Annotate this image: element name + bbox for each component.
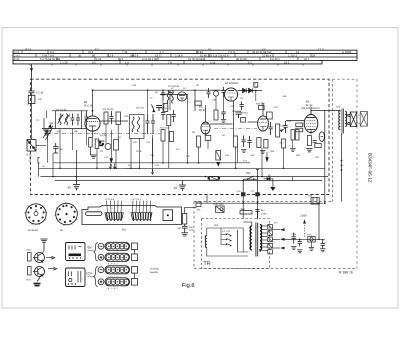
row 2 cells [106, 255, 129, 260]
svg-text:B 01: B 01 [27, 154, 33, 157]
B1 top lead [92, 90, 94, 116]
T1 collector [38, 253, 43, 256]
socket 2 key dot [65, 213, 67, 215]
wire harness line 3 [13, 56, 357, 58]
svg-text:220V: 220V [301, 214, 308, 218]
B5 left drop [292, 140, 294, 148]
svg-text:1 1 29: 1 1 29 [60, 61, 68, 64]
battery row 3 minus circle [98, 267, 104, 273]
220V arrowhead [303, 220, 306, 224]
svg-text:S20: S20 [336, 106, 341, 109]
below-can cap 2 [248, 136, 252, 148]
tube B4b envelope [258, 116, 269, 131]
B4b top lead [262, 103, 264, 116]
B4a grid [227, 92, 236, 94]
svg-text:8 4: 8 4 [95, 48, 99, 51]
B4b grid [259, 122, 267, 124]
rail down arrow b [113, 164, 115, 169]
R14 cross stroke [216, 151, 221, 161]
antenna down-lead wire [31, 64, 33, 91]
dial slot window [86, 212, 103, 216]
row 2 connector block [132, 254, 138, 261]
row 2 plus sign [100, 256, 103, 259]
capacitor C6 in box [76, 114, 80, 126]
svg-text:6V: 6V [88, 246, 93, 250]
mains wire horizontal [243, 178, 257, 180]
B3 heater drop [198, 147, 200, 163]
row 4 plus sign [100, 280, 103, 283]
mains transformer secondary stack [260, 225, 262, 252]
svg-text:B1 B3 B4: B1 B3 B4 [28, 229, 39, 232]
trimmer capacitor C3 arrows [43, 118, 53, 141]
trimmer lower wire [47, 141, 49, 163]
svg-text:− 4 7 − 3 1: − 4 7 − 3 1 [106, 263, 118, 266]
B5 cathode cap [313, 141, 317, 143]
osc padder cap [146, 114, 150, 134]
battery row 1 minus circle [98, 243, 104, 249]
svg-text:12V: 12V [86, 272, 93, 276]
svg-text:3841 9: 3841 9 [130, 55, 139, 58]
row 4 connector block [132, 279, 138, 286]
svg-text:7 4 11: 7 4 11 [228, 51, 236, 54]
B4b ground [260, 151, 266, 154]
mixer grid resistor R4 [104, 112, 108, 124]
surge resistor R66 [240, 211, 252, 214]
coil box drop a [59, 129, 61, 169]
B5 anode [307, 117, 316, 119]
svg-text:4 8 48 1: 4 8 48 1 [270, 58, 280, 61]
B3 right drop 2 [223, 97, 225, 112]
volume pot coupling cap [269, 122, 273, 135]
mains entry box [216, 206, 225, 212]
wire under osc box [125, 167, 140, 169]
battery row 4 holder [105, 278, 130, 286]
B5 grid 1 [306, 126, 316, 128]
T1 collector lead up [43, 251, 45, 254]
SK6 circle contact [69, 278, 72, 281]
wire harness top line [13, 49, 357, 51]
svg-text:kwartlle: kwartlle [150, 271, 159, 274]
string mass 1 hatch [107, 213, 122, 219]
wire R2 to ground [89, 147, 91, 155]
antenna lead arrowhead [30, 68, 33, 72]
output transformer core bar 2 [343, 109, 345, 134]
wire antenna to input connector [31, 93, 33, 140]
B5 cathode [307, 130, 315, 135]
osc coil winding a [132, 117, 134, 133]
svg-text:+ − + − + − +: + − + − + − + [106, 275, 119, 278]
rectifier terminal cell 3 [268, 237, 273, 242]
svg-text:R7 1k: R7 1k [136, 150, 143, 153]
ratio coil squiggle a [167, 91, 169, 104]
screen feed resistor R12 [195, 101, 201, 105]
ground 49 [179, 181, 186, 191]
B3 right resistor [214, 110, 218, 120]
lamp drop wire [311, 242, 313, 248]
B5 top lead [310, 107, 312, 115]
rectifier terminal cell 2 [268, 231, 273, 236]
output transformer core bar 1 [341, 109, 343, 134]
svg-text:EL 84: EL 84 [306, 104, 313, 107]
svg-text:4 18: 4 18 [210, 61, 216, 64]
selector feed wires [221, 228, 248, 252]
B4b anode [260, 118, 266, 120]
drop wire mixer [105, 124, 107, 144]
transistor T1 envelope [35, 253, 45, 263]
heater rail [55, 180, 322, 182]
IF grid cluster cap b [172, 110, 176, 122]
detector node drop [255, 91, 257, 102]
wire harness line 4 [13, 59, 357, 61]
svg-text:TR: TR [204, 261, 211, 267]
string mass 2 [131, 213, 152, 220]
secondary to speaker wire a [347, 114, 349, 115]
B3 grid dashes [202, 126, 209, 128]
feedback box RC [315, 144, 321, 148]
svg-text:C103: C103 [261, 212, 267, 215]
transformer core line 2 [257, 223, 259, 257]
coupling cap node wire [162, 100, 164, 112]
pilot lamp ground b [297, 250, 303, 253]
B1 coupling wire to oscillator [100, 120, 128, 122]
wire top of FM stage [52, 110, 88, 112]
row 4 cells [106, 279, 129, 284]
battery row 1 holder [105, 242, 130, 250]
B3 top lead [205, 105, 207, 122]
svg-text:ECC 85: ECC 85 [84, 105, 93, 108]
selector taps left [221, 235, 227, 245]
voltage selector contact 1 [227, 234, 232, 237]
external loudspeaker 2 [360, 112, 367, 127]
svg-text:S5 C31: S5 C31 [136, 107, 145, 110]
rail dot e [283, 168, 285, 170]
legend left bias boxes [28, 253, 32, 262]
osc box drop wire [139, 138, 141, 168]
svg-text:49: 49 [174, 186, 178, 190]
tuning arrow into osc box [152, 105, 155, 112]
interference filter on boundary [311, 198, 319, 205]
selector tap dots [226, 234, 227, 235]
drop wire from can [235, 147, 237, 168]
front-end micro labels [36, 98, 160, 167]
ratio coil squiggle b [172, 91, 174, 104]
screen resistor R3 [95, 139, 99, 149]
svg-text:44 7: 44 7 [304, 58, 310, 61]
coil S1 winding a [59, 114, 61, 126]
tube B5 EL84 envelope [304, 115, 318, 133]
svg-text:7%: 7% [240, 97, 243, 100]
below-can cap 1 [242, 136, 246, 148]
brace 12V [94, 267, 98, 287]
B5 cathode resistor [307, 136, 311, 146]
T1 base bar [37, 254, 39, 261]
socket 1 key [34, 212, 38, 216]
row 1 cell dots [108, 246, 127, 247]
secondary tap 1 [262, 225, 268, 227]
detent cluster dot [47, 130, 49, 132]
rail dot g [76, 176, 78, 178]
secondary to speaker wire b [347, 123, 349, 126]
T2 emitter with arrow [38, 273, 43, 276]
svg-text:C101 R64: C101 R64 [213, 203, 224, 206]
drive drum square [163, 210, 173, 221]
svg-text:7 8: 7 8 [168, 61, 172, 64]
B3 screen ground [221, 120, 226, 123]
secondary cap drop [169, 99, 171, 110]
6V tilde [88, 250, 94, 251]
can stage ground [241, 150, 247, 153]
secondary tap 4 [262, 236, 268, 238]
svg-text:12 8 6 5 4: 12 8 6 5 4 [105, 198, 115, 201]
B3 left resistor R13 [197, 136, 201, 147]
pulley dots 1 [107, 220, 122, 221]
socket diagram 2 outline [56, 203, 78, 225]
mixer lower circle element [105, 144, 111, 150]
output cap C107 [321, 239, 325, 248]
mains transformer primary stack [250, 226, 252, 250]
ground 40 [73, 177, 80, 191]
cap C41 [168, 90, 172, 99]
secondary tap 7 [262, 246, 268, 248]
detector diode 2 [249, 88, 253, 93]
electrolytic cap C72 [319, 132, 324, 141]
AM gang dash-dot link [214, 128, 257, 130]
svg-text:7 38: 7 38 [122, 51, 128, 54]
detector diode 1 [243, 88, 247, 93]
B5 left ground [290, 149, 296, 152]
svg-text:3 3: 3 3 [262, 48, 266, 51]
svg-text:SK7: SK7 [246, 171, 252, 175]
transformer core line 1 [255, 223, 257, 257]
scale tick group 2 [133, 201, 151, 213]
extra drop padder top [147, 90, 149, 114]
output terminal arrow 2 [48, 267, 57, 270]
speaker compartment dashed top edge [333, 78, 358, 80]
pot wiper arrow [280, 130, 283, 133]
socket 1 pins [27, 205, 44, 222]
svg-text:B3: B3 [199, 105, 203, 109]
svg-text:28: 28 [312, 55, 315, 58]
cap C7 drop [86, 126, 88, 145]
svg-text:127 220: 127 220 [222, 230, 231, 233]
svg-text:B11: B11 [122, 229, 127, 232]
battery row 3 holder [105, 266, 130, 274]
svg-text:R1 C9 S3: R1 C9 S3 [103, 108, 114, 111]
tuning arrowhead [152, 110, 155, 113]
B2 internal bar [179, 95, 185, 97]
drop wire mixer 2 [117, 125, 119, 140]
tube B3 envelope [201, 122, 210, 134]
svg-text:OC44: OC44 [26, 249, 32, 252]
terminal arrow 1 lead [272, 229, 280, 231]
harness tick marks [22, 50, 311, 66]
extra junction dots [52, 89, 325, 204]
AVC resistor vertical [254, 83, 258, 88]
SK6 inner marks [69, 271, 81, 283]
external speaker jack wires [358, 116, 360, 124]
grid resistor pair box b [296, 128, 303, 132]
B2 internal cathode [180, 98, 184, 101]
cathode resistor R14 [216, 151, 221, 161]
svg-text:B4 EABC80: B4 EABC80 [225, 82, 239, 85]
mains drop left [242, 179, 244, 219]
B1 stage ground [91, 155, 97, 158]
detector line [238, 90, 262, 92]
heater tap resistor [210, 176, 219, 180]
svg-text:IΩ: IΩ [29, 160, 32, 163]
supply rail 3 [41, 176, 329, 178]
B3 screen cap [221, 112, 225, 119]
secondary tap 2 [262, 229, 268, 231]
scatter labels band upper [132, 84, 287, 109]
cap C44 [207, 88, 211, 98]
switch SK7 blade [248, 176, 254, 179]
svg-text:7 1 9: 7 1 9 [318, 48, 324, 51]
svg-text:5%: 5% [197, 209, 200, 212]
mains plug triangle [270, 187, 275, 191]
heater supply wire [285, 238, 325, 240]
lower cap cluster bars [53, 143, 59, 153]
battery row 2 plus circle [98, 254, 104, 260]
svg-text:R66: R66 [241, 208, 246, 211]
B4b lower box2 [264, 140, 268, 149]
extra drop wire x53 [52, 153, 54, 177]
primary top lead [251, 222, 253, 226]
capacitor C7 [85, 111, 89, 126]
B5 grid 3 [307, 120, 316, 122]
T1 base lead [33, 257, 38, 259]
chassis drop wire [206, 195, 208, 204]
selector tap dot c [226, 244, 227, 245]
C107 ground [320, 249, 326, 252]
B3 stage drop [207, 141, 209, 150]
small tube indicator B2 [177, 92, 186, 101]
OT junction dots [341, 160, 343, 162]
B4b down arrow [266, 152, 269, 162]
svg-text:48 51 98: 48 51 98 [236, 58, 247, 61]
row 3 cells [106, 267, 129, 272]
mains drop right [257, 170, 259, 219]
brace 6V [94, 243, 98, 262]
SK6 pin dots [68, 283, 76, 284]
B4a cathode [228, 97, 234, 101]
output B+ drop wire [324, 160, 326, 203]
svg-text:R11 C43: R11 C43 [160, 127, 169, 130]
B1 cathode lead [92, 131, 94, 138]
svg-text:C44 S9: C44 S9 [212, 89, 220, 92]
small circle element [213, 91, 218, 96]
mixer blob cluster [99, 141, 105, 146]
tuning gang dash-dot link [46, 133, 160, 135]
legend bottom chassis bar [34, 284, 41, 286]
dropper resistor by dial [183, 213, 187, 224]
220V dotted feeler [304, 220, 306, 237]
B1 grid line [87, 121, 98, 123]
fuse holder box [196, 202, 201, 206]
junction dot power c [318, 202, 320, 204]
supply rail 1 [53, 162, 250, 164]
socket 2 pins [57, 205, 75, 224]
svg-text:5 5 75 98 52 989: 5 5 75 98 52 989 [40, 58, 61, 61]
FM detent transistor blob [44, 126, 53, 136]
oscillator coil box S5 [130, 115, 145, 139]
AVC line top [93, 89, 225, 91]
detector to B4b wire [261, 102, 263, 104]
tube B1 ECC85 envelope [85, 116, 100, 131]
trimmer stem wire [46, 111, 48, 118]
row 2 cell dots [108, 257, 127, 258]
osc box drop wire 2 [152, 138, 154, 163]
mains top tick [256, 169, 259, 171]
IF grid cluster cap a [161, 113, 165, 121]
coupling cap C40 [161, 90, 165, 100]
power unit dashed top edge [194, 201, 333, 203]
secondary tap 5 [262, 239, 268, 241]
string mass 1 [105, 213, 123, 220]
extra vertical wire x152 lower [152, 135, 154, 172]
loudspeaker 1 [350, 112, 357, 127]
secondary top wire [160, 93, 188, 95]
battery row 4 plus circle [98, 279, 104, 285]
mixer lower components box [114, 140, 119, 151]
svg-text:R2 2k2: R2 2k2 [100, 134, 108, 137]
smoothing cap C105 [292, 233, 296, 244]
switch terminal dot b [253, 178, 255, 180]
B4b lower resistor [257, 138, 261, 148]
selector common bar [237, 230, 239, 252]
wire harness bottom line [13, 63, 322, 65]
B1 top node dot [92, 110, 94, 112]
AM grid box [267, 112, 273, 119]
barretter lamp box [308, 237, 315, 242]
transformer TR dashed box [202, 219, 270, 269]
svg-text:9 41: 9 41 [14, 58, 20, 61]
junction dot power b [257, 202, 259, 204]
line cap C103 [255, 210, 259, 219]
B3 cathode [203, 131, 208, 134]
row 4 cell dots [108, 281, 127, 282]
detector load box [259, 106, 265, 110]
terminal arrow 3 [280, 247, 285, 250]
drum shaft dot [167, 214, 169, 216]
rail down arrow a [109, 164, 111, 169]
rail left tie [38, 163, 40, 177]
heater drop wire B1 [76, 150, 78, 177]
grid resistor pair box a [296, 123, 303, 127]
row 3 connector block [132, 267, 138, 274]
terminal arrow 1 [280, 228, 285, 231]
rail dot c [187, 162, 189, 164]
extra drop det load [292, 177, 294, 181]
svg-text:B1: B1 [84, 100, 88, 104]
svg-text:51 78 38 9188: 51 78 38 9188 [188, 58, 206, 61]
rail down arrow c [151, 169, 153, 174]
terminal arrow 2 [280, 238, 285, 241]
voltage selector contact 2 [227, 239, 232, 242]
terminal arrow 2 lead [272, 238, 280, 240]
terminal arrow 3 lead [272, 247, 280, 249]
svg-text:W 13: W 13 [25, 48, 31, 51]
left bracket element [38, 158, 40, 164]
rectifier terminal cell 1 [268, 225, 273, 230]
B plus vertical [318, 203, 320, 239]
row 3 cell dots [108, 269, 127, 270]
TR inner bottom wire [207, 248, 248, 257]
antenna coil L1 [28, 95, 35, 103]
AF coupling wire [286, 120, 305, 122]
svg-text:C40 R10: C40 R10 [160, 107, 169, 110]
extra drop B4 cathode [237, 147, 239, 163]
